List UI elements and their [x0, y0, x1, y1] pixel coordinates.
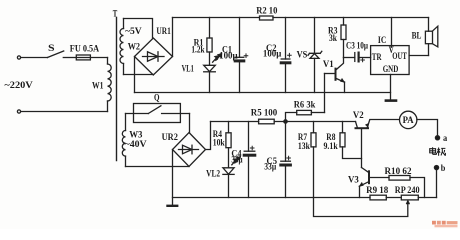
wire: lower supply rail left [211, 121, 259, 123]
resistor R9 [370, 195, 386, 200]
node junction dot [284, 120, 287, 123]
svg-text:VS: VS [297, 50, 308, 60]
svg-text:1.2k: 1.2k [191, 44, 205, 54]
capacitor C5 [281, 122, 291, 198]
fuse FU 0.5A [76, 55, 90, 60]
svg-text:a: a [443, 133, 448, 143]
svg-text:BL: BL [412, 31, 422, 41]
svg-text:100μ: 100μ [219, 50, 238, 60]
wire: PA to terminal a [417, 120, 438, 136]
wire: V1 base riser to R6 [324, 74, 326, 113]
label 电极 [430, 147, 446, 156]
svg-text:C3 10μ: C3 10μ [346, 40, 369, 50]
ground [168, 205, 178, 207]
svg-text:~5V: ~5V [125, 26, 142, 36]
node: AC input terminal bottom [17, 110, 20, 113]
capacitor C3 [344, 53, 371, 62]
svg-text:100μ: 100μ [263, 48, 282, 58]
wire: upper ground rail [135, 92, 391, 94]
transistor V3 [359, 168, 389, 198]
wire: switch to fuse [63, 57, 76, 59]
svg-text:V1: V1 [323, 59, 334, 69]
node: terminal a [435, 136, 439, 140]
speaker BL [425, 18, 437, 56]
svg-text:UR2: UR2 [162, 132, 179, 142]
capacitor C1 [235, 18, 248, 93]
svg-text:R6 3k: R6 3k [294, 100, 316, 110]
op-amp IC box [371, 18, 429, 100]
resistor R2 [260, 16, 274, 20]
svg-text:~40V: ~40V [125, 139, 147, 149]
svg-text:IC: IC [378, 35, 386, 45]
svg-text:VL1: VL1 [182, 64, 194, 74]
resistor R8 [340, 122, 362, 159]
bridge rectifier UR1 [135, 38, 173, 75]
svg-text:RP 240: RP 240 [395, 185, 420, 195]
wire: bottom rail right [418, 197, 436, 199]
transistor V2 [356, 120, 399, 168]
svg-text:V3: V3 [348, 175, 359, 185]
svg-text:GND: GND [383, 64, 399, 74]
wire: W2 bottom to UR1 AC bottom [124, 74, 154, 76]
wire: UR1 plus output to top rail [172, 18, 174, 57]
wire: Q to UR2 AC top [189, 114, 191, 134]
LED VL1 [204, 52, 222, 93]
svg-text:UR1: UR1 [156, 26, 171, 36]
svg-text:R9 18: R9 18 [366, 185, 389, 195]
transformer winding W3 [122, 114, 125, 167]
wire: terminal b riser [436, 170, 438, 198]
svg-text:3k: 3k [329, 33, 338, 43]
svg-text:V2: V2 [353, 110, 364, 120]
resistor R7 [311, 122, 316, 198]
bridge rectifier UR2 [173, 133, 206, 167]
transformer core T [116, 18, 118, 161]
transformer winding W2 [120, 19, 123, 75]
transformer winding W1 [108, 58, 112, 112]
resistor R10 [389, 176, 425, 198]
svg-text:33μ: 33μ [231, 155, 243, 165]
ground [386, 99, 396, 102]
svg-text:R2 10: R2 10 [256, 6, 278, 16]
wire: W2 top to UR1 AC top [124, 19, 153, 39]
svg-text:Q: Q [154, 92, 160, 102]
svg-text:W3: W3 [129, 129, 143, 139]
switch Q relay box [126, 104, 190, 123]
LED VL2 [223, 148, 240, 198]
svg-text:W1: W1 [92, 81, 104, 91]
svg-text:13k: 13k [298, 141, 311, 151]
svg-text:9.1k: 9.1k [324, 141, 339, 151]
resistor R1 [207, 18, 212, 53]
wire: top rail right segment [273, 17, 429, 19]
svg-text:OUT: OUT [392, 51, 407, 61]
resistor R5 [259, 119, 275, 124]
svg-text:TR: TR [372, 52, 382, 62]
wire: top AC lead to switch [21, 57, 48, 59]
capacitor C4 [244, 122, 255, 198]
svg-text:PA: PA [403, 115, 414, 125]
wire: top rail left segment [173, 17, 260, 19]
node: AC input terminal top [17, 56, 20, 59]
svg-text:VL2: VL2 [206, 169, 220, 179]
wire: UR2 plus to lower rail riser [206, 122, 211, 150]
svg-text:b: b [441, 163, 446, 173]
wire: bottom rail left [173, 197, 371, 199]
potentiometer RP [314, 195, 419, 216]
node: terminal b [434, 166, 438, 170]
svg-text:R10 62: R10 62 [385, 166, 412, 176]
wire: UR1 minus output down to upper ground rail [134, 57, 136, 93]
watermark logo [432, 221, 458, 227]
svg-text:R5 100: R5 100 [251, 108, 278, 118]
wire: bottom AC lead to W1 [21, 111, 108, 113]
wire: UR2 minus down to bottom rail [172, 150, 174, 206]
wire: fuse to W1 top [90, 57, 107, 59]
wire: bottom rail mid [386, 197, 401, 199]
transistor V1 [325, 58, 345, 93]
resistor R4 [226, 122, 231, 148]
svg-text:~220V: ~220V [4, 80, 33, 90]
svg-text:FU 0.5A: FU 0.5A [70, 44, 100, 54]
wire: lower supply rail right [274, 121, 355, 123]
svg-text:33μ: 33μ [264, 162, 277, 172]
capacitor C2 [281, 18, 291, 93]
svg-text:10k: 10k [213, 137, 226, 147]
svg-text:W2: W2 [128, 41, 141, 51]
wire: W3 bottom to UR2 AC bottom [126, 166, 190, 168]
ammeter PA [400, 111, 417, 128]
zener diode VS [308, 18, 322, 93]
svg-text:S: S [48, 43, 55, 53]
switch S [47, 51, 63, 58]
resistor R3 [341, 18, 346, 58]
svg-text:T: T [113, 8, 118, 18]
resistor R6 [286, 110, 325, 121]
